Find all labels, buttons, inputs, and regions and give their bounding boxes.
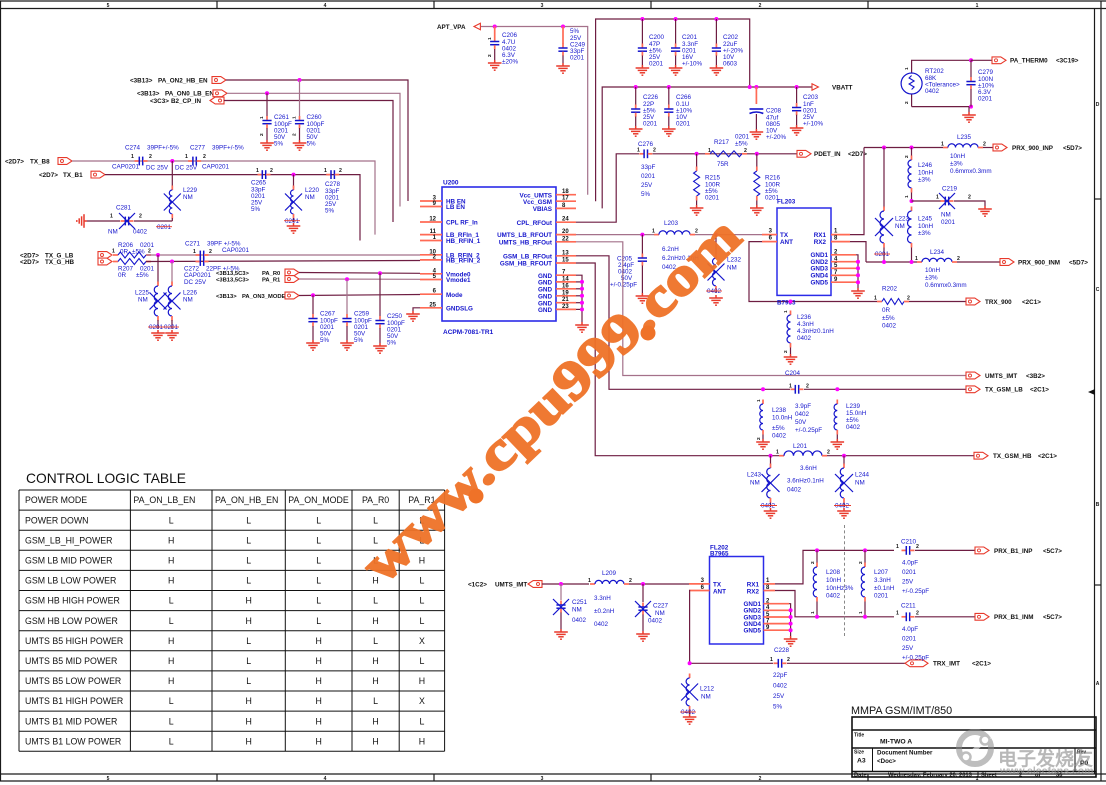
capacitor C206: [487, 27, 518, 66]
junction: [748, 85, 752, 89]
capacitor C250: [375, 273, 405, 346]
svg-text:GND: GND: [538, 307, 552, 314]
svg-text:4: 4: [324, 3, 327, 9]
svg-text:2: 2: [858, 561, 864, 564]
ground: [764, 508, 778, 518]
svg-text:2: 2: [827, 450, 830, 456]
svg-text:B2_CP_IN: B2_CP_IN: [171, 98, 202, 105]
svg-text:H: H: [168, 676, 174, 686]
svg-text:www.elecfans.com: www.elecfans.com: [999, 765, 1094, 777]
svg-text:±3%: ±3%: [925, 275, 938, 282]
svg-text:±3%: ±3%: [950, 161, 963, 168]
ground: [690, 205, 704, 215]
svg-text:2: 2: [259, 133, 265, 136]
port B2_CP_IN: [150, 97, 224, 105]
svg-text:H: H: [168, 636, 174, 646]
inductor L203: [652, 220, 699, 271]
svg-text:1: 1: [770, 657, 773, 663]
svg-text:GSM_LB_HI_POWER: GSM_LB_HI_POWER: [25, 535, 113, 545]
junction: [292, 173, 296, 177]
svg-text:APT_VPA: APT_VPA: [437, 24, 466, 31]
svg-text:GND5: GND5: [811, 280, 829, 287]
svg-text:H: H: [372, 676, 378, 686]
junction: [559, 582, 563, 586]
svg-text:C210: C210: [901, 538, 917, 545]
junction: [856, 280, 860, 284]
svg-text:ANT: ANT: [713, 588, 726, 595]
svg-text:H: H: [419, 736, 425, 746]
svg-text:1: 1: [896, 611, 899, 617]
svg-text:3.3nH: 3.3nH: [594, 595, 611, 602]
svg-text:0402: 0402: [882, 322, 897, 329]
svg-text:H: H: [419, 676, 425, 686]
svg-text:RX1: RX1: [747, 581, 760, 588]
svg-text:PA_R1: PA_R1: [262, 277, 281, 283]
inductor L229 (NM): [164, 161, 198, 221]
svg-text:CPL_RFOut: CPL_RFOut: [517, 220, 553, 227]
inductor L234: [915, 249, 967, 289]
svg-text:0201: 0201: [978, 96, 993, 103]
svg-text:0402: 0402: [681, 709, 696, 716]
svg-text:0R: 0R: [120, 248, 129, 255]
svg-text:H: H: [168, 535, 174, 545]
svg-text:2: 2: [783, 350, 789, 353]
svg-text:NM: NM: [855, 480, 865, 487]
svg-text:0201: 0201: [149, 324, 164, 331]
port TX_G_HB: [20, 258, 112, 266]
svg-text:L: L: [169, 596, 174, 606]
svg-text:H: H: [168, 556, 174, 566]
svg-text:<3C3>: <3C3>: [150, 98, 169, 105]
svg-text:2: 2: [149, 154, 152, 160]
wire B2_CP_IN net: [224, 101, 393, 223]
port TX_B1: [39, 171, 105, 179]
svg-text:L226: L226: [183, 289, 198, 296]
svg-text:TRX_IMT: TRX_IMT: [933, 661, 960, 668]
svg-text:3.6nHz0.1nH: 3.6nHz0.1nH: [787, 478, 824, 485]
inductor L236: [783, 310, 834, 354]
capacitor C202: [712, 19, 744, 68]
junction: [640, 17, 644, 21]
svg-text:5%: 5%: [251, 206, 261, 213]
svg-text:<5C7>: <5C7>: [1043, 548, 1062, 555]
svg-text:±5%: ±5%: [772, 425, 785, 432]
svg-text:NM: NM: [183, 296, 193, 303]
wire PA_R0 net: [299, 272, 420, 275]
svg-text:1: 1: [292, 116, 298, 119]
ground: [575, 322, 589, 332]
wire INP to port: [915, 549, 975, 551]
wire ANT to TRX_900: [749, 242, 877, 302]
wire RX1 riser: [850, 148, 864, 235]
inductor L201: [776, 443, 830, 494]
svg-text:Vmode1: Vmode1: [446, 277, 471, 284]
capacitor C278: [324, 168, 342, 214]
inductor L245: [908, 207, 934, 263]
svg-text:0R: 0R: [882, 307, 891, 314]
capacitor C266: [664, 87, 692, 128]
svg-text:L201: L201: [793, 443, 808, 450]
port TRX_900: [966, 298, 1041, 306]
svg-text:10nH: 10nH: [826, 577, 842, 584]
inductor L246: [904, 148, 934, 202]
resistor R215: [694, 154, 721, 205]
svg-text:±5%: ±5%: [735, 140, 748, 147]
svg-text:GSM_HB_RFOUT: GSM_HB_RFOUT: [500, 261, 552, 268]
svg-text:1: 1: [193, 249, 196, 255]
svg-text:L208: L208: [826, 569, 841, 576]
svg-text:0201: 0201: [676, 121, 691, 128]
svg-text:L246: L246: [918, 162, 933, 169]
resistor R217: [705, 133, 750, 168]
svg-text:L234: L234: [930, 249, 945, 256]
svg-text:0402: 0402: [772, 433, 787, 440]
wire GND pin: [576, 308, 582, 310]
svg-text:C251: C251: [572, 599, 588, 606]
svg-text:CAP0201: CAP0201: [112, 164, 139, 171]
junction: [667, 85, 671, 89]
svg-text:L: L: [169, 716, 174, 726]
wire PA_ON2_HB_EN net: [226, 80, 408, 201]
ground: [683, 714, 697, 724]
svg-text:5%: 5%: [773, 704, 783, 711]
port PA_R0: [216, 269, 299, 277]
ground: [636, 65, 650, 75]
ground: [837, 508, 851, 518]
svg-text:±5%: ±5%: [846, 417, 859, 424]
junction: [863, 548, 867, 552]
svg-text:1: 1: [185, 154, 188, 160]
svg-text:4: 4: [324, 776, 327, 782]
capacitor C208: [750, 87, 787, 141]
svg-text:10nH: 10nH: [918, 169, 934, 176]
svg-text:1: 1: [652, 228, 655, 234]
svg-text:H: H: [168, 576, 174, 586]
svg-text:2: 2: [916, 611, 919, 617]
svg-text:1: 1: [637, 147, 640, 153]
port TRX_IMT: [905, 660, 991, 668]
svg-text:L212: L212: [700, 685, 715, 692]
watermark www.cpu999.com: [350, 205, 752, 594]
wire to TRX_900 port: [909, 301, 966, 303]
svg-text:0201: 0201: [902, 569, 917, 576]
port PA_ON3_MODE: [216, 292, 299, 300]
svg-text:1: 1: [896, 544, 899, 550]
svg-text:GND5: GND5: [744, 628, 762, 635]
inductor L232 (NM): [706, 235, 742, 296]
wire FL203 gnd pin: [856, 261, 858, 263]
svg-text:L: L: [419, 616, 424, 626]
svg-text:FL203: FL203: [777, 199, 796, 206]
port PA_THERM0: [971, 57, 1079, 65]
svg-text:GND: GND: [538, 286, 552, 293]
wire GND pin: [576, 302, 582, 304]
svg-text:L: L: [246, 676, 251, 686]
svg-text:2: 2: [787, 657, 790, 663]
svg-text:H: H: [245, 736, 251, 746]
port PA_ON0_LB_EN: [137, 90, 227, 98]
capacitor C261: [259, 93, 292, 147]
svg-text:<3B13>: <3B13>: [130, 77, 153, 84]
svg-text:2: 2: [983, 142, 986, 148]
capacitor C272: [184, 257, 240, 286]
label 0201 L229: [156, 224, 172, 231]
svg-text:TX: TX: [713, 581, 722, 588]
ground: [488, 60, 502, 70]
svg-text:<3C19>: <3C19>: [1056, 58, 1079, 65]
junction: [641, 582, 645, 586]
wire L209 to FL202: [629, 583, 689, 585]
svg-text:19: 19: [562, 290, 569, 296]
svg-text:POWER DOWN: POWER DOWN: [25, 515, 89, 525]
resistor R216: [754, 154, 781, 205]
svg-text:15.0nH: 15.0nH: [846, 410, 867, 417]
junction: [345, 277, 349, 281]
capacitor C271: [185, 241, 249, 260]
watermark elecfans logo: [959, 732, 991, 764]
svg-text:12: 12: [429, 217, 436, 223]
svg-text:0201: 0201: [157, 224, 172, 231]
ground: [662, 126, 676, 136]
junction: [170, 260, 174, 264]
svg-text:L203: L203: [664, 220, 679, 227]
svg-text:<Doc>: <Doc>: [877, 758, 896, 765]
svg-text:H: H: [315, 656, 321, 666]
port TX_GSM_LB: [966, 386, 1049, 394]
svg-text:C227: C227: [653, 603, 669, 610]
svg-text:15: 15: [562, 258, 569, 264]
junction: [695, 152, 699, 156]
svg-text:39PF+/-5%: 39PF+/-5%: [212, 145, 244, 152]
port PRX_900_INP: [983, 144, 1082, 152]
svg-text:10nHz3%: 10nHz3%: [826, 585, 854, 592]
svg-text:1: 1: [708, 148, 711, 154]
junction: [969, 58, 973, 62]
svg-text:TRX_900: TRX_900: [985, 299, 1012, 306]
svg-text:L: L: [316, 596, 321, 606]
capacitor C276: [637, 141, 656, 198]
svg-text:1: 1: [789, 383, 792, 389]
junction: [580, 301, 584, 305]
wire PA_ON0_LB_EN net: [227, 93, 400, 206]
svg-text:L243: L243: [747, 472, 762, 479]
svg-text:<2D7>: <2D7>: [5, 158, 24, 165]
wire TX_B1 net: [105, 175, 360, 241]
svg-text:0201: 0201: [941, 219, 956, 226]
svg-text:L207: L207: [874, 569, 889, 576]
ground: [293, 140, 307, 150]
capacitor C281 (NM): [87, 205, 172, 236]
svg-text:L225: L225: [135, 289, 150, 296]
svg-text:1: 1: [776, 450, 779, 456]
svg-text:25V: 25V: [641, 182, 653, 189]
svg-text:1: 1: [259, 116, 265, 119]
svg-text:0402: 0402: [773, 683, 788, 690]
wire UMTS_IMT feed: [542, 583, 589, 585]
wire GND pin: [576, 288, 582, 290]
inductor L235: [941, 134, 992, 175]
svg-text:TX_B8: TX_B8: [30, 158, 50, 165]
svg-text:L: L: [316, 556, 321, 566]
svg-text:+/-20%: +/-20%: [766, 134, 787, 141]
wire TX_GSM_HB net: [576, 263, 779, 456]
junction: [910, 260, 914, 264]
svg-text:0402: 0402: [572, 617, 587, 624]
svg-text:TX_GSM_HB: TX_GSM_HB: [993, 453, 1032, 460]
svg-text:+/-0.25pF: +/-0.25pF: [902, 654, 929, 661]
port PA_ON2_HB_EN: [130, 77, 226, 85]
ground: [636, 293, 650, 303]
ground: [750, 129, 764, 139]
ground: [373, 343, 387, 353]
svg-text:VBATT: VBATT: [832, 84, 853, 91]
wire L203 to FL203: [695, 234, 762, 236]
svg-text:2: 2: [203, 154, 206, 160]
svg-text:DC 25V: DC 25V: [175, 165, 198, 172]
svg-text:L: L: [316, 576, 321, 586]
svg-text:B7965: B7965: [710, 551, 729, 558]
svg-text:H: H: [372, 616, 378, 626]
svg-text:D: D: [1096, 102, 1100, 108]
svg-text:25: 25: [429, 302, 436, 308]
svg-text:<2C1>: <2C1>: [1038, 453, 1057, 460]
ground: [831, 439, 845, 449]
svg-text:<5D7>: <5D7>: [1069, 259, 1088, 266]
ground: [756, 439, 770, 449]
svg-text:1: 1: [874, 296, 877, 302]
svg-text:0.6mmx0.3mm: 0.6mmx0.3mm: [950, 168, 992, 175]
capacitor C267: [308, 295, 338, 344]
svg-text:GSM_LB_RFOut: GSM_LB_RFOut: [503, 253, 553, 260]
svg-text:<1C2>: <1C2>: [468, 581, 487, 588]
svg-text:±3%: ±3%: [918, 177, 931, 184]
title block: [852, 717, 1096, 779]
junction: [910, 146, 914, 150]
svg-text:2: 2: [759, 776, 762, 782]
svg-text:+/-0.25pF: +/-0.25pF: [902, 588, 929, 595]
svg-text:1: 1: [110, 214, 113, 220]
svg-text:L: L: [373, 696, 378, 706]
ground: [669, 65, 683, 75]
svg-text:4.3nH: 4.3nH: [797, 321, 814, 328]
ground: [287, 223, 301, 233]
svg-text:HB_RFIN_1: HB_RFIN_1: [446, 238, 481, 245]
inductor L225 (NM): [135, 255, 167, 331]
junction: [378, 271, 382, 275]
svg-text:24: 24: [562, 217, 569, 223]
port TX_G_LB: [20, 252, 112, 260]
svg-text:2: 2: [339, 168, 342, 174]
svg-text:25V: 25V: [902, 645, 914, 652]
svg-text:25V: 25V: [773, 693, 785, 700]
svg-text:1: 1: [256, 168, 259, 174]
capacitor C200: [638, 19, 665, 68]
ground: [784, 354, 798, 364]
ground: [306, 340, 320, 350]
svg-text:H: H: [372, 736, 378, 746]
capacitor C265: [251, 168, 273, 213]
svg-text:TX_G_HB: TX_G_HB: [45, 259, 74, 266]
junction: [714, 17, 718, 21]
svg-text:L: L: [419, 596, 424, 606]
svg-text:GSM HB HIGH POWER: GSM HB HIGH POWER: [25, 596, 120, 606]
svg-text:<3B13>: <3B13>: [137, 91, 160, 98]
svg-text:5%: 5%: [325, 208, 335, 215]
svg-text:Date:: Date:: [854, 773, 869, 779]
svg-text:L: L: [169, 696, 174, 706]
junction: [789, 628, 793, 632]
junction: [634, 85, 638, 89]
wire to TRX_IMT port: [787, 662, 905, 664]
svg-text:0201: 0201: [705, 195, 720, 202]
junction: [580, 294, 584, 298]
svg-text:L244: L244: [855, 472, 870, 479]
svg-text:NM: NM: [108, 229, 118, 236]
wire UMTS_IMT net: [576, 242, 966, 376]
filter FL203 B7953: [762, 199, 856, 296]
svg-text:L245: L245: [918, 216, 933, 223]
inductor L223 (NM): [874, 148, 910, 263]
svg-text:X: X: [419, 696, 425, 706]
svg-text:NM: NM: [895, 223, 905, 230]
ground: [978, 206, 992, 216]
thermistor RT202: [901, 62, 960, 107]
inductor L243 (NM): [747, 456, 780, 510]
svg-text:0201: 0201: [875, 251, 890, 258]
IC U200: [420, 180, 576, 337]
svg-text:10nH: 10nH: [918, 223, 934, 230]
svg-text:C228: C228: [774, 647, 790, 654]
junction: [789, 608, 793, 612]
junction: [789, 622, 793, 626]
svg-text:+/-10%: +/-10%: [682, 61, 703, 68]
svg-text:5%: 5%: [307, 141, 317, 148]
ground: [784, 636, 798, 646]
inductor L226 (NM): [163, 262, 198, 332]
ground: [151, 330, 165, 340]
svg-text:0402: 0402: [648, 618, 663, 625]
svg-text:1: 1: [915, 256, 918, 262]
svg-text:2: 2: [139, 214, 142, 220]
junction: [789, 300, 793, 304]
svg-text:5%: 5%: [641, 191, 651, 198]
svg-text:L: L: [246, 636, 251, 646]
svg-text:L: L: [169, 736, 174, 746]
svg-text:<2C1>: <2C1>: [972, 661, 991, 668]
svg-text:±0.2nH: ±0.2nH: [594, 608, 615, 615]
junction: [795, 85, 799, 89]
label C204: [785, 370, 801, 377]
wire CPL_RFOut net: [576, 154, 639, 222]
svg-text:<5D7>: <5D7>: [1063, 145, 1082, 152]
port PDET_IN: [797, 150, 867, 158]
svg-text:PA_ON2_HB_EN: PA_ON2_HB_EN: [158, 77, 208, 84]
svg-text:2: 2: [759, 3, 762, 9]
wire PA_ON3_MODE net: [299, 295, 420, 296]
svg-text:POWER MODE: POWER MODE: [25, 495, 87, 505]
svg-text:L: L: [316, 515, 321, 525]
svg-text:L: L: [246, 515, 251, 525]
inductor L239: [834, 400, 867, 440]
svg-text:H: H: [245, 696, 251, 706]
svg-text:Title: Title: [854, 733, 864, 739]
svg-text:L: L: [316, 535, 321, 545]
inductor L244 (NM): [834, 456, 870, 510]
junction: [856, 266, 860, 270]
svg-text:NM: NM: [183, 194, 193, 201]
svg-text:<3B13,5C3>: <3B13,5C3>: [216, 277, 249, 283]
junction: [863, 615, 867, 619]
